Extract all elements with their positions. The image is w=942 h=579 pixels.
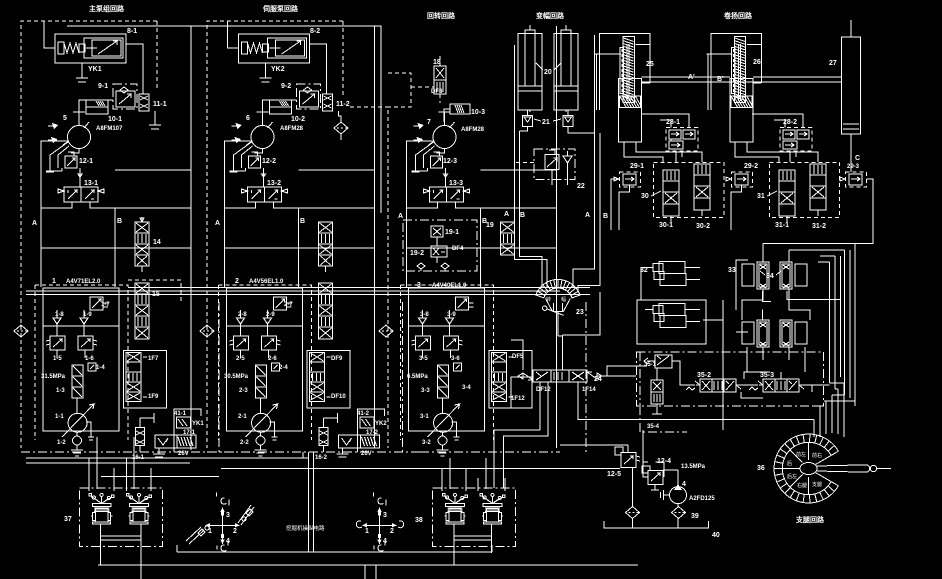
svg-text:卷扬回路: 卷扬回路 xyxy=(724,11,753,20)
svg-text:2: 2 xyxy=(235,278,239,285)
pump group 3 xyxy=(407,26,557,448)
svg-text:A: A xyxy=(215,220,220,227)
check valve 21b xyxy=(563,110,573,126)
shuttle valve 29-2 xyxy=(726,172,752,187)
svg-text:4: 4 xyxy=(682,481,686,488)
wire staircase into rotary xyxy=(688,383,855,437)
wire 8-1 loop xyxy=(44,21,143,94)
wire gauge to 24 xyxy=(558,292,600,370)
svg-text:26V: 26V xyxy=(178,451,189,457)
svg-text:2-6: 2-6 xyxy=(268,356,277,362)
cartridge valve pair 33/34 top xyxy=(742,262,807,289)
svg-text:B: B xyxy=(520,212,525,219)
section 2 dash-dot bottom border xyxy=(207,302,420,452)
svg-text:22: 22 xyxy=(577,183,585,190)
drain T below YK1 xyxy=(76,63,88,82)
svg-text:3-6: 3-6 xyxy=(451,356,460,362)
svg-text:32: 32 xyxy=(640,267,648,274)
svg-text:31-1: 31-1 xyxy=(775,222,789,229)
filter left xyxy=(14,325,28,337)
bus wire bottom 2 xyxy=(98,564,638,566)
svg-text:C: C xyxy=(855,155,860,162)
svg-text:35-2: 35-2 xyxy=(697,372,711,379)
wire luff B-bus right xyxy=(578,133,600,292)
wire 38 outputs xyxy=(454,524,492,565)
svg-text:DF5: DF5 xyxy=(512,354,524,360)
svg-text:2: 2 xyxy=(233,528,237,535)
luffing cylinder 20b xyxy=(554,25,578,110)
svg-text:1: 1 xyxy=(52,278,56,285)
svg-text:10-3: 10-3 xyxy=(471,109,485,116)
pedal right xyxy=(238,505,254,525)
svg-text:1: 1 xyxy=(365,528,369,535)
bus drop to tank xyxy=(365,565,376,579)
wire 8-2 loop xyxy=(228,21,327,94)
main valve assembly 1 xyxy=(124,351,167,409)
svg-text:伺服泵回路: 伺服泵回路 xyxy=(262,4,299,13)
pilot solenoid unit 8-2 xyxy=(239,34,310,63)
svg-text:31: 31 xyxy=(757,193,765,200)
section 2 dashed enclosure xyxy=(207,21,343,448)
wire top link xyxy=(67,26,381,97)
svg-text:3-8: 3-8 xyxy=(420,312,429,318)
svg-text:34: 34 xyxy=(766,273,774,280)
accumulator 27 xyxy=(842,20,861,134)
hoist cylinder 26 xyxy=(706,34,761,142)
svg-text:14: 14 xyxy=(153,239,161,246)
wire luff B-bus xyxy=(520,131,542,288)
svg-text:2-2: 2-2 xyxy=(240,440,249,446)
main valve assembly 2 xyxy=(307,351,350,409)
svg-text:30-2: 30-2 xyxy=(696,223,710,230)
valve stack 15b xyxy=(319,283,333,316)
svg-text:29-3: 29-3 xyxy=(847,164,860,170)
svg-text:2-8: 2-8 xyxy=(238,312,247,318)
wire 35 internal xyxy=(672,361,830,398)
svg-text:7: 7 xyxy=(427,119,431,126)
svg-text:12-3: 12-3 xyxy=(443,158,457,165)
svg-text:27: 27 xyxy=(829,60,837,67)
svg-text:DF10: DF10 xyxy=(331,394,346,400)
svg-text:33: 33 xyxy=(728,267,736,274)
section 3 dashed enclosure xyxy=(387,110,389,448)
wire cart group xyxy=(703,244,855,431)
wire cyl25 ports xyxy=(642,44,650,83)
svg-text:4: 4 xyxy=(383,538,387,545)
svg-text:2-1: 2-1 xyxy=(238,414,247,420)
filter mid 2 xyxy=(379,325,393,337)
svg-text:2: 2 xyxy=(390,528,394,535)
svg-text:41-1: 41-1 xyxy=(174,411,187,417)
leader 21 xyxy=(534,119,561,121)
section 1 dashed enclosure xyxy=(21,21,157,448)
solenoid valve 35-3 xyxy=(749,379,804,392)
shuttle valve 29-1 xyxy=(614,172,640,187)
wire 24 left xyxy=(511,340,647,408)
joystick 1 xyxy=(206,492,240,551)
cartridge valve pair bottom xyxy=(742,320,807,347)
wire 29 valves xyxy=(611,179,873,244)
svg-text:4: 4 xyxy=(226,538,230,545)
svg-text:支腿回路: 支腿回路 xyxy=(795,515,825,524)
pilot solenoid unit 8-1 xyxy=(55,34,126,63)
relief valve 12-5 xyxy=(615,447,640,467)
svg-text:3-1: 3-1 xyxy=(420,414,429,420)
wire 27 to C valve xyxy=(850,134,852,172)
wire luff A-bus xyxy=(514,45,547,288)
svg-text:6: 6 xyxy=(246,115,250,122)
hoist winch valve group 31 xyxy=(770,162,840,222)
svg-text:29-2: 29-2 xyxy=(744,163,758,170)
svg-text:29-1: 29-1 xyxy=(630,163,644,170)
svg-text:18: 18 xyxy=(433,59,441,66)
solenoid valve 24 xyxy=(518,370,602,382)
svg-text:8-2: 8-2 xyxy=(310,28,320,35)
svg-text:23: 23 xyxy=(576,309,584,316)
brake valve box 28-1 xyxy=(666,128,698,152)
pressure gauge selector 23 xyxy=(536,279,580,315)
pump group 2 xyxy=(225,26,375,448)
drain T below YK2 xyxy=(260,63,272,82)
joystick 2 curls xyxy=(356,521,403,528)
svg-text:2-4: 2-4 xyxy=(279,365,288,371)
svg-text:3: 3 xyxy=(383,512,387,519)
svg-text:1F14: 1F14 xyxy=(582,387,596,393)
filter below 11-2 xyxy=(334,122,348,134)
pilot valve 35-1 xyxy=(644,355,672,368)
balance valve box 22 xyxy=(516,149,575,185)
hoist cylinder 25 xyxy=(595,34,650,142)
wire 28 boxes up xyxy=(641,114,803,128)
relief valve 12-4 xyxy=(642,466,663,490)
pilot unit 37a xyxy=(89,493,114,524)
svg-text:39: 39 xyxy=(691,513,699,520)
svg-text:2-9: 2-9 xyxy=(266,312,275,318)
drain T below 11-1 xyxy=(149,111,161,129)
svg-text:1-7: 1-7 xyxy=(101,302,110,308)
svg-text:DF4: DF4 xyxy=(452,246,464,252)
wire band low xyxy=(26,458,620,477)
filter mid 1 xyxy=(200,325,214,337)
svg-text:30: 30 xyxy=(641,193,649,200)
filter aux 2 xyxy=(672,507,686,519)
svg-text:12-5: 12-5 xyxy=(607,471,621,478)
wire 24 down xyxy=(494,382,688,488)
svg-text:YK2: YK2 xyxy=(271,66,285,73)
accumulator group 32 xyxy=(637,262,706,345)
wire cyl26 ports xyxy=(753,44,762,83)
wire luff cyl drops xyxy=(520,110,595,133)
enclosure 35 xyxy=(636,352,823,406)
svg-text:3-2: 3-2 xyxy=(422,440,431,446)
svg-text:19-2: 19-2 xyxy=(410,250,424,257)
valve stack 14b xyxy=(319,222,333,255)
leader 31 xyxy=(767,191,777,196)
svg-text:3-9: 3-9 xyxy=(447,312,456,318)
svg-text:B: B xyxy=(117,218,122,225)
svg-text:2-7: 2-7 xyxy=(284,302,293,308)
svg-text:10-1: 10-1 xyxy=(108,116,122,123)
filter aux 1 xyxy=(626,507,640,519)
svg-text:A4V40EL1.0: A4V40EL1.0 xyxy=(432,283,467,289)
svg-text:1-4: 1-4 xyxy=(96,365,105,371)
svg-text:A8FM28: A8FM28 xyxy=(280,126,304,132)
svg-text:回转回路: 回转回路 xyxy=(427,11,456,20)
wire hoist cyl to groups xyxy=(624,139,818,162)
leader 34 xyxy=(760,271,781,275)
svg-text:26: 26 xyxy=(753,59,761,66)
pilot unit 37b xyxy=(126,493,151,524)
pilot unit 38a xyxy=(442,493,467,524)
svg-text:后: 后 xyxy=(787,460,792,467)
solenoid 10-3 xyxy=(444,104,470,122)
pump block 1 xyxy=(35,285,128,456)
pedal left xyxy=(186,526,209,544)
valve stack 19 aux xyxy=(501,222,515,255)
svg-text:20: 20 xyxy=(544,69,552,76)
svg-text:40: 40 xyxy=(712,532,720,539)
svg-text:A: A xyxy=(32,220,37,227)
svg-text:DF8: DF8 xyxy=(431,89,443,95)
svg-text:YK1: YK1 xyxy=(88,66,102,73)
svg-text:DF12: DF12 xyxy=(536,387,551,393)
svg-text:1-5: 1-5 xyxy=(53,356,62,362)
svg-text:1-9: 1-9 xyxy=(83,312,92,318)
svg-text:YK2: YK2 xyxy=(375,421,387,427)
svg-text:A: A xyxy=(585,212,590,219)
solenoid group 41-1/17-1/16-1 xyxy=(135,409,201,457)
svg-text:1F12: 1F12 xyxy=(511,396,525,402)
svg-text:5: 5 xyxy=(63,115,67,122)
svg-text:35-4: 35-4 xyxy=(647,424,660,430)
svg-text:41-2: 41-2 xyxy=(357,411,370,417)
svg-text:A4V56EL1.0: A4V56EL1.0 xyxy=(249,279,284,285)
brake valve box 28-2 xyxy=(780,128,812,152)
solenoid group 41-2/17-2/16-2 xyxy=(319,409,385,457)
svg-text:11-2: 11-2 xyxy=(336,101,350,108)
svg-text:12-1: 12-1 xyxy=(79,158,93,165)
wire luff A-bus right xyxy=(573,35,595,288)
wire section2 pilot drop xyxy=(303,452,314,552)
svg-text:A: A xyxy=(398,213,403,220)
svg-text:21: 21 xyxy=(542,119,550,126)
joystick 2 xyxy=(363,492,397,551)
pressure valve group 9-2/10-2/11-2 xyxy=(270,84,333,114)
wire hoist top xyxy=(642,77,842,82)
svg-text:前右: 前右 xyxy=(812,452,822,459)
pilot box 38 xyxy=(433,488,516,546)
svg-text:1-3: 1-3 xyxy=(56,388,65,394)
wire right bundle xyxy=(818,244,855,407)
leader lines 20 xyxy=(536,63,561,70)
pump group 1 xyxy=(41,26,191,448)
svg-text:16-2: 16-2 xyxy=(315,455,328,461)
tank 40 xyxy=(604,521,708,528)
pressure valve group 9-1/10-1/11-1 xyxy=(86,84,149,114)
svg-text:35-3: 35-3 xyxy=(760,372,774,379)
svg-text:19-1: 19-1 xyxy=(445,229,459,236)
svg-text:17-1: 17-1 xyxy=(183,430,196,436)
svg-text:A8FM107: A8FM107 xyxy=(96,126,123,132)
svg-text:1-1: 1-1 xyxy=(55,414,64,420)
svg-text:8-1: 8-1 xyxy=(127,28,137,35)
svg-text:变幅回路: 变幅回路 xyxy=(536,11,565,20)
valve stack 14 xyxy=(140,217,144,222)
svg-text:36: 36 xyxy=(757,465,765,472)
svg-text:13.5MPa: 13.5MPa xyxy=(681,464,706,470)
svg-text:24: 24 xyxy=(594,376,602,383)
svg-text:3-3: 3-3 xyxy=(421,388,430,394)
svg-text:B: B xyxy=(300,218,305,225)
pump block 3 xyxy=(401,285,494,456)
valve stack 15 xyxy=(128,280,181,303)
shuttle valve 29-3 xyxy=(840,172,866,187)
svg-text:2-3: 2-3 xyxy=(239,388,248,394)
bus wire bottom 1 xyxy=(177,545,492,552)
svg-text:26V: 26V xyxy=(361,451,372,457)
leader 30 xyxy=(651,191,661,196)
wire aux pump xyxy=(560,430,678,528)
wire 38 inputs xyxy=(442,458,505,491)
svg-text:前左: 前左 xyxy=(796,451,806,458)
pilot unit 38b xyxy=(480,493,505,524)
svg-text:3: 3 xyxy=(226,512,230,519)
svg-text:支腿: 支腿 xyxy=(812,481,822,488)
svg-text:1-6: 1-6 xyxy=(85,356,94,362)
check valve 21a xyxy=(523,110,533,126)
svg-text:1F7: 1F7 xyxy=(148,356,159,362)
enclosure 35 left xyxy=(640,352,687,432)
svg-text:9-1: 9-1 xyxy=(98,83,108,90)
svg-text:1-2: 1-2 xyxy=(57,440,66,446)
svg-text:后左: 后左 xyxy=(787,473,797,480)
svg-text:B: B xyxy=(603,213,608,220)
svg-text:13-3: 13-3 xyxy=(449,180,463,187)
section 3 dash-dot bottom border xyxy=(420,302,586,452)
pump block 2 xyxy=(219,285,312,456)
hoist winch valve group 30 xyxy=(654,162,724,222)
svg-text:A8FM28: A8FM28 xyxy=(461,127,485,133)
svg-text:6.5MPa: 6.5MPa xyxy=(407,374,428,380)
aux pump 4 xyxy=(661,484,687,504)
svg-text:A: A xyxy=(504,211,509,218)
svg-text:10-2: 10-2 xyxy=(291,116,305,123)
svg-text:幅: 幅 xyxy=(561,296,566,303)
svg-text:1-8: 1-8 xyxy=(55,312,64,318)
svg-text:17-2: 17-2 xyxy=(366,430,379,436)
luffing cylinder 20a xyxy=(518,25,542,110)
svg-text:13-1: 13-1 xyxy=(84,180,98,187)
svg-text:A4V71EL2.0: A4V71EL2.0 xyxy=(66,279,101,285)
pilot valve box 19 xyxy=(403,220,477,271)
svg-text:9-2: 9-2 xyxy=(281,83,291,90)
svg-text:3-5: 3-5 xyxy=(419,356,428,362)
wire top link 2 xyxy=(251,26,382,213)
wire band mid xyxy=(26,288,590,295)
svg-text:YK1: YK1 xyxy=(192,421,204,427)
wire 9-1 to pump xyxy=(79,100,113,112)
svg-text:31.5MPa: 31.5MPa xyxy=(41,374,66,380)
wire 37 outputs xyxy=(100,524,140,579)
wire 37 inputs xyxy=(89,437,151,491)
svg-text:37: 37 xyxy=(64,516,72,523)
svg-text:30.5MPa: 30.5MPa xyxy=(224,374,249,380)
svg-text:30-1: 30-1 xyxy=(659,222,673,229)
svg-text:11-1: 11-1 xyxy=(153,101,167,108)
svg-text:挖掘机操纵电路: 挖掘机操纵电路 xyxy=(286,524,325,532)
solenoid valve 35-2 xyxy=(686,379,741,392)
svg-text:转: 转 xyxy=(546,296,551,303)
valve 18 xyxy=(388,56,446,107)
svg-text:3-4: 3-4 xyxy=(462,385,471,391)
pilot box 37 xyxy=(80,488,163,546)
main valve assembly 3 xyxy=(489,351,532,409)
svg-text:2-5: 2-5 xyxy=(236,356,245,362)
svg-text:右腿: 右腿 xyxy=(797,482,807,489)
svg-text:31-2: 31-2 xyxy=(812,223,826,230)
svg-text:38: 38 xyxy=(415,517,423,524)
svg-text:13-2: 13-2 xyxy=(267,180,281,187)
section 1 dash-dot bottom border xyxy=(21,300,237,452)
wire 11-2 to swing pilot xyxy=(350,106,388,108)
svg-text:35-1: 35-1 xyxy=(644,362,657,368)
svg-text:19: 19 xyxy=(486,222,494,229)
wire 9-2 to pump xyxy=(263,100,297,112)
svg-text:1F9: 1F9 xyxy=(148,394,159,400)
svg-text:12-2: 12-2 xyxy=(262,158,276,165)
valve 35-4 xyxy=(651,368,663,414)
svg-text:A2FD125: A2FD125 xyxy=(689,496,715,502)
svg-text:主泵组回路: 主泵组回路 xyxy=(89,4,125,13)
svg-text:DF9: DF9 xyxy=(331,356,343,362)
